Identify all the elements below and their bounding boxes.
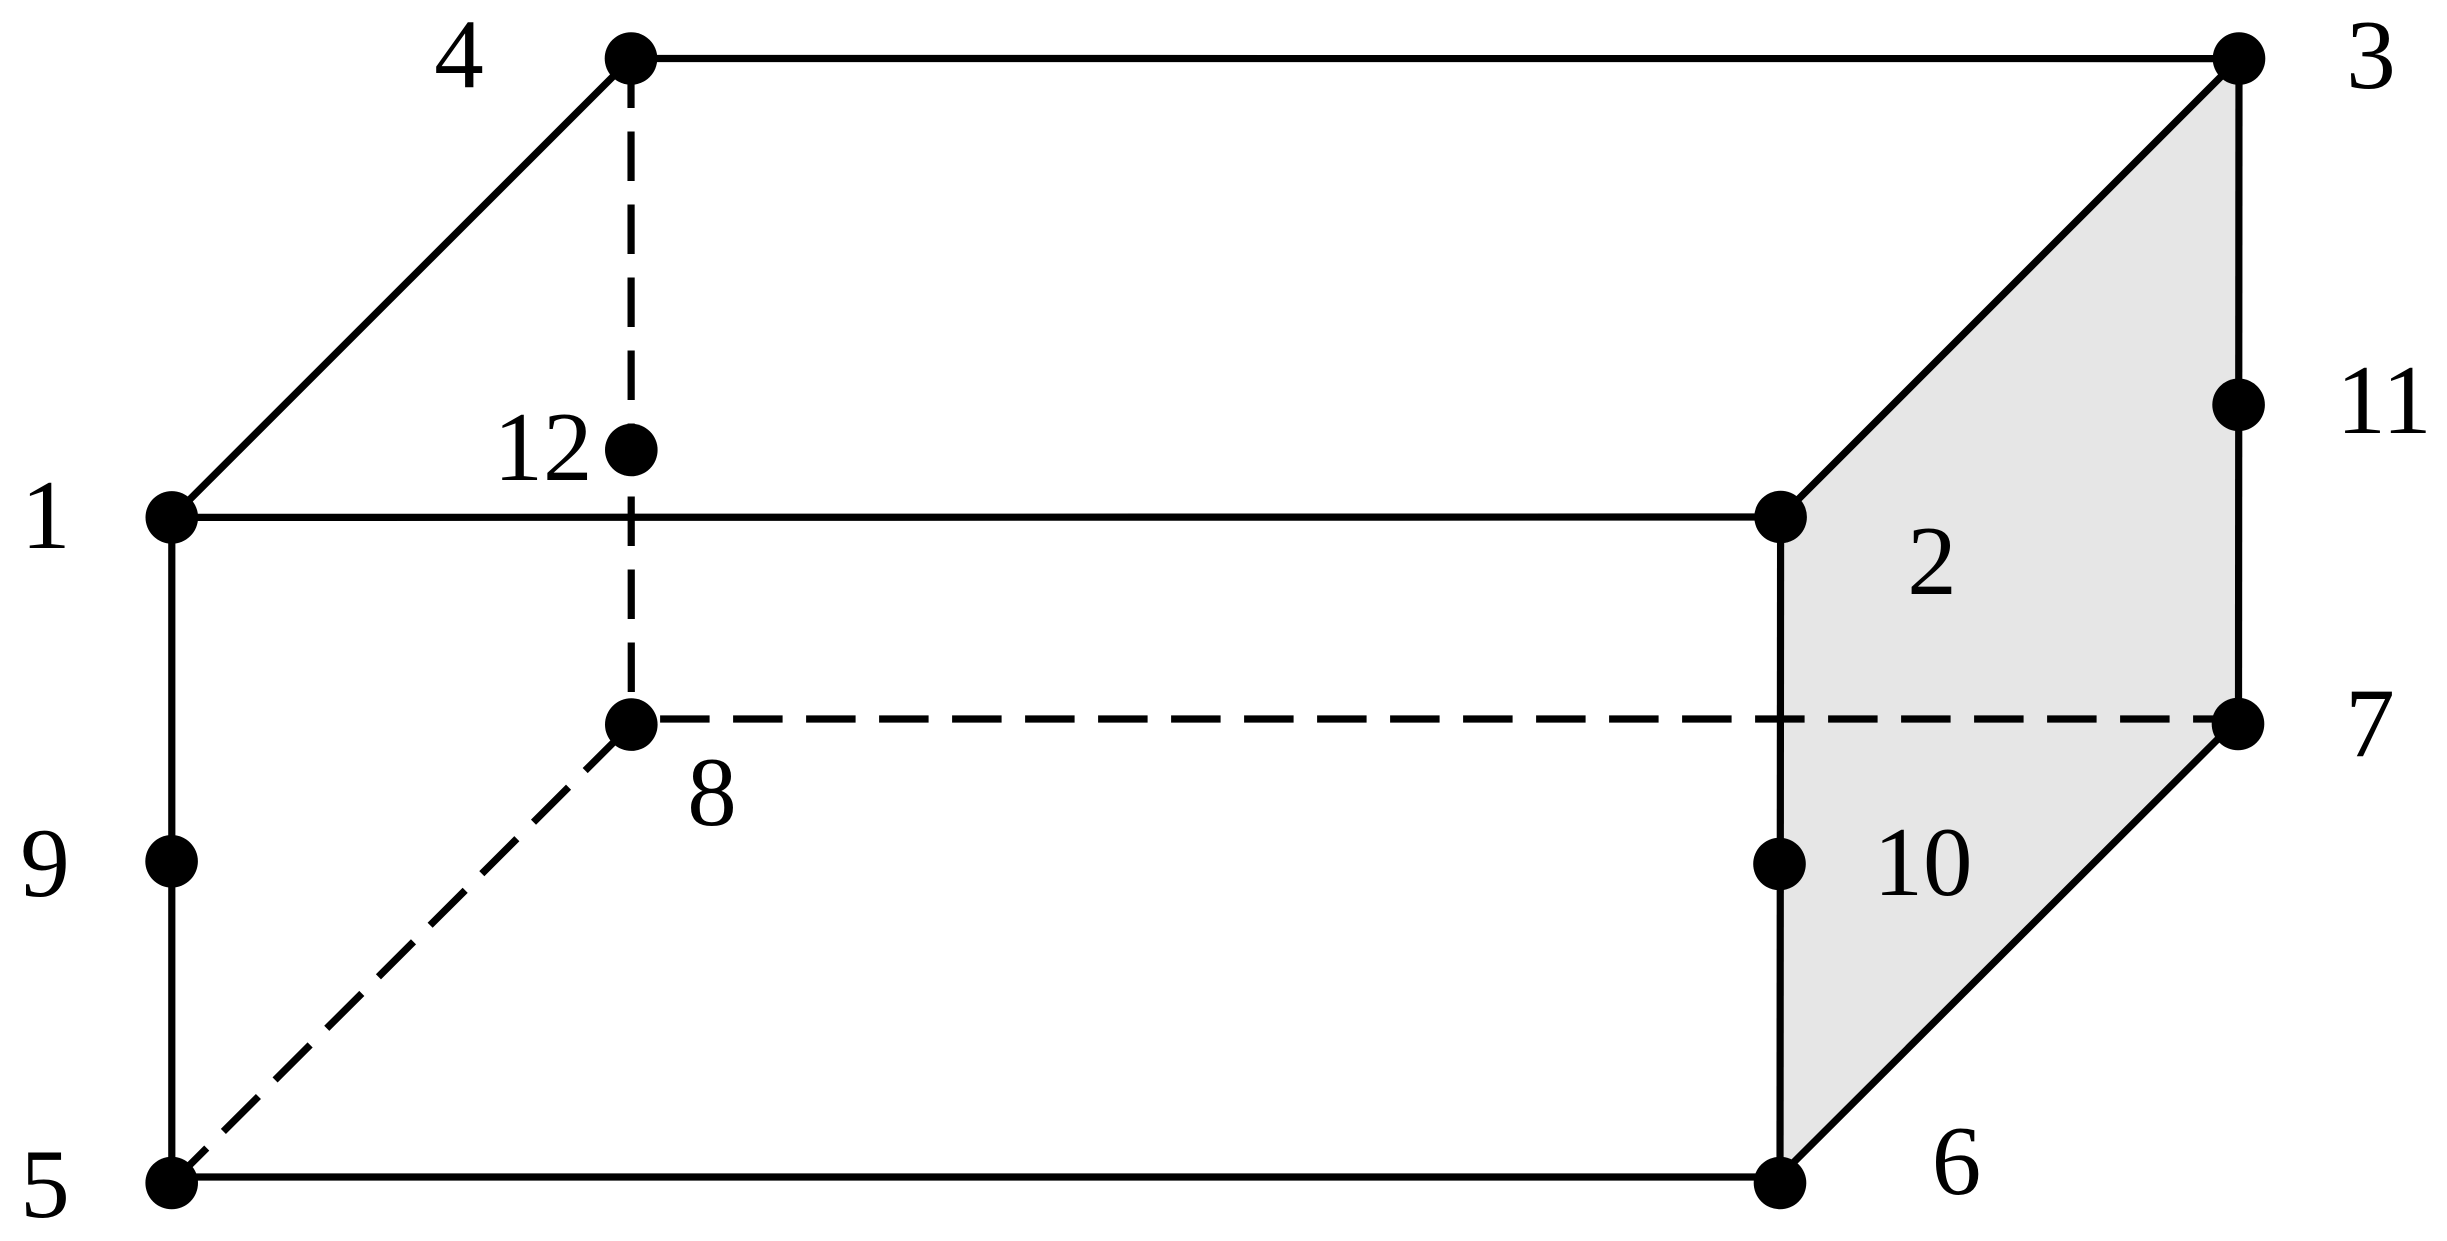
- svg-text:1: 1: [21, 461, 71, 570]
- svg-text:9: 9: [20, 809, 70, 918]
- svg-text:12: 12: [494, 393, 593, 502]
- svg-text:8: 8: [687, 738, 737, 847]
- svg-text:11: 11: [2336, 346, 2431, 455]
- svg-text:4: 4: [434, 0, 484, 109]
- svg-text:7: 7: [2345, 669, 2395, 778]
- svg-text:6: 6: [1932, 1107, 1982, 1216]
- svg-text:10: 10: [1874, 808, 1973, 917]
- svg-text:5: 5: [20, 1130, 70, 1239]
- svg-text:3: 3: [2346, 1, 2396, 110]
- svg-text:2: 2: [1907, 507, 1957, 616]
